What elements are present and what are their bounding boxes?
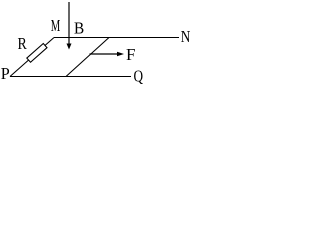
svg-text:N: N (181, 28, 191, 47)
svg-text:R: R (18, 35, 28, 54)
label Q (133, 67, 143, 86)
wire top rail M-N (54, 37, 179, 39)
svg-text:B: B (74, 20, 84, 38)
svg-text:M: M (51, 17, 61, 36)
svg-text:F: F (126, 45, 135, 64)
label R (18, 35, 28, 54)
svg-text:P: P (1, 64, 10, 83)
resistor R (27, 44, 47, 63)
label F (126, 45, 135, 64)
label M (51, 17, 61, 36)
svg-text:Q: Q (133, 67, 143, 86)
label P (1, 64, 10, 83)
label N (181, 28, 191, 47)
arrow B (magnetic field, downward) (67, 2, 72, 50)
conductor rod (slider) (66, 38, 109, 77)
wire left slant P to M (10, 38, 54, 77)
arrow F (applied force, rightward) (90, 52, 125, 56)
wire bottom rail P-Q (10, 76, 131, 78)
label B (74, 20, 84, 38)
